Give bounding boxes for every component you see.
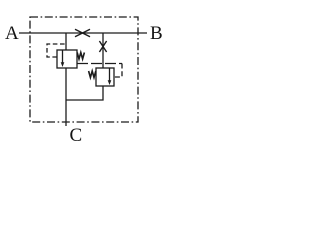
valve V2 body: [96, 68, 114, 86]
svg-text:C: C: [70, 125, 83, 144]
wire A-B line: [19, 32, 147, 34]
orifice X1 on A-B line: [75, 29, 90, 37]
pilot line (dashed) from V1 spring side to V2: [77, 63, 122, 65]
spring w of valve V1: [77, 53, 84, 60]
valve V2 flow arrow: [109, 69, 111, 82]
wire supply branch to valve V2: [102, 33, 104, 68]
spring w of valve V2: [89, 71, 96, 78]
wire supply branch to valve V1: [65, 33, 67, 50]
svg-text:A: A: [5, 23, 19, 44]
pilot line (dashed) of valve V1: [47, 44, 65, 57]
wire drain of valve V2: [66, 86, 103, 100]
orifice X2 on supply branch: [99, 41, 106, 52]
svg-text:B: B: [150, 23, 163, 44]
dash-dot enclosure border: [30, 17, 138, 122]
valve V1 flow arrow: [62, 51, 64, 64]
valve V1 body: [57, 50, 77, 68]
wire drain of valve V1 to port C: [65, 68, 67, 126]
